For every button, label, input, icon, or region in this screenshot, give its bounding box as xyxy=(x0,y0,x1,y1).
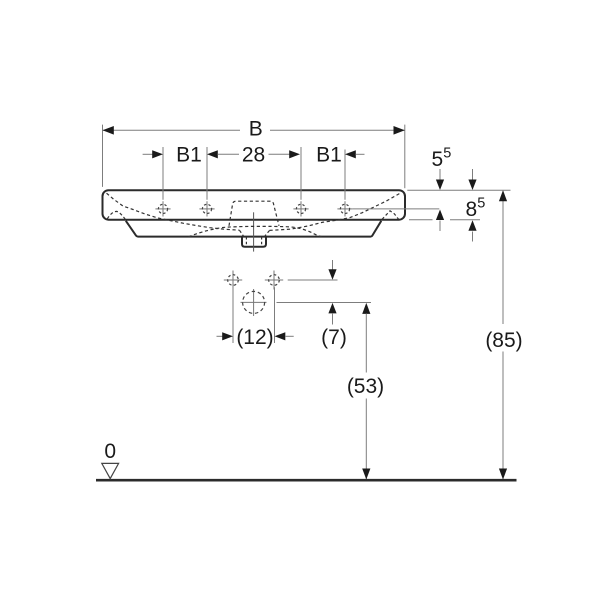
dimension (12) arrows xyxy=(217,335,224,337)
hidden overflow dome (dashed trapezoid) xyxy=(229,201,279,226)
dimension 8.5 arrows xyxy=(472,232,474,242)
fixing hole right xyxy=(265,271,283,290)
basin lower body xyxy=(126,221,381,237)
svg-text:(12): (12) xyxy=(236,326,273,349)
hidden contour bump left (dashed) xyxy=(107,211,125,219)
svg-text:B1: B1 xyxy=(176,144,202,167)
dimension (85) vertical line xyxy=(502,191,504,324)
svg-text:(7): (7) xyxy=(321,326,347,349)
siphon axis extension line xyxy=(277,302,372,304)
hidden bowl curve right half (dashed) xyxy=(270,193,401,231)
svg-text:5: 5 xyxy=(432,148,444,171)
svg-text:(85): (85) xyxy=(485,329,522,352)
dimension B extension line left xyxy=(102,125,104,187)
svg-text:0: 0 xyxy=(104,440,116,463)
svg-text:B: B xyxy=(249,117,263,140)
hidden drain funnel (dashed) xyxy=(240,230,244,236)
hole extension ticks xyxy=(162,147,164,200)
svg-text:5: 5 xyxy=(443,146,451,162)
drain centerline xyxy=(253,212,255,251)
dimension 28 line xyxy=(207,150,218,158)
hidden apron inner edge (dashed) xyxy=(189,226,322,236)
siphon hole (dashed circle) xyxy=(241,289,267,316)
svg-text:B1: B1 xyxy=(316,144,342,167)
dimension B extension line right xyxy=(404,125,406,189)
fixing hole left xyxy=(224,271,242,290)
hidden bowl curve left half (dashed) xyxy=(107,193,240,230)
basin rim (outer rounded rectangle, front view) xyxy=(103,190,406,220)
svg-text:28: 28 xyxy=(242,144,265,167)
drain stub hidden inner pipe (dashed) xyxy=(245,237,247,246)
top edge extension line right xyxy=(407,189,510,191)
tap hole 2 xyxy=(199,201,214,216)
tap hole 3 xyxy=(293,201,308,216)
tap hole 4 xyxy=(337,201,352,216)
dimension (7) lower arrow xyxy=(328,303,336,314)
ground datum triangle xyxy=(102,463,119,478)
tap hole axis extension line right xyxy=(353,208,440,210)
dimension (12) extension lines xyxy=(232,287,234,343)
dimension B line xyxy=(103,129,241,131)
dimension (53) vertical line xyxy=(362,303,370,314)
svg-text:8: 8 xyxy=(466,198,478,221)
tap hole 1 xyxy=(155,201,170,216)
drain stub xyxy=(242,237,266,247)
dimension B1 right arrow xyxy=(345,150,356,158)
dimension B1 left arrow xyxy=(143,153,153,155)
hidden contour bump right (dashed) xyxy=(382,211,399,220)
ground line xyxy=(96,479,517,482)
rim bottom extension segments xyxy=(409,219,433,221)
dimension (7) upper arrow xyxy=(332,260,334,270)
dimension 5.5 arrows xyxy=(439,169,441,181)
fixing hole axis extension line xyxy=(288,279,338,281)
svg-text:(53): (53) xyxy=(347,375,384,398)
svg-text:5: 5 xyxy=(477,196,485,212)
